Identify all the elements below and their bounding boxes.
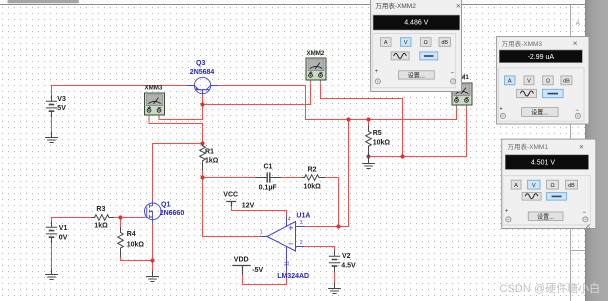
node F junction [336, 224, 340, 228]
watermark CSDN [500, 281, 601, 295]
svg-text:+: + [375, 69, 379, 75]
svg-text:2N6660: 2N6660 [160, 210, 185, 217]
svg-text:VCC: VCC [223, 192, 238, 199]
svg-text:0.1µF: 0.1µF [259, 184, 278, 191]
svg-text:Ω: Ω [551, 183, 555, 189]
node E junction [200, 175, 204, 179]
wire node B to XMM2 left pin [203, 85, 311, 105]
sheet frame zone line [570, 5, 572, 301]
svg-text:LM324AD: LM324AD [277, 273, 309, 280]
svg-text:×: × [579, 141, 584, 151]
wire R5 top lead [368, 120, 370, 126]
svg-text:XMM3: XMM3 [145, 84, 163, 91]
svg-text:1kΩ: 1kΩ [94, 223, 108, 230]
wire op-amp pin2 to V2 [304, 247, 335, 251]
transistor Q3 [187, 77, 219, 94]
multimeter icon XMM1 [452, 83, 472, 109]
resistor R1 [200, 145, 206, 171]
R5 bottom junction [366, 154, 370, 158]
svg-text:2: 2 [300, 240, 303, 246]
svg-text:+: + [499, 106, 503, 112]
svg-text:V: V [404, 40, 408, 46]
svg-text:万用表-XMM3: 万用表-XMM3 [502, 39, 543, 48]
svg-text:Ω: Ω [424, 40, 428, 46]
zone divider tick [571, 250, 586, 252]
wire C1 to R2 [281, 177, 302, 179]
right gray outside area [586, 0, 608, 301]
wire op-amp pin3 to collector node [305, 120, 349, 227]
svg-text:×: × [456, 0, 461, 10]
wire R4 bottom to source node [121, 257, 153, 261]
wire node B to XMM3 right pin [159, 105, 203, 120]
wire R2 to node F [325, 178, 338, 227]
resistor R2 [302, 175, 326, 181]
top scrollbar strip [0, 0, 586, 5]
svg-text:0V: 0V [59, 235, 68, 242]
wire V3 to Q3 emitter [52, 86, 187, 96]
wire op-amp pin11 to VDD [243, 272, 287, 285]
svg-text:−: − [583, 210, 587, 216]
svg-text:V1: V1 [59, 225, 68, 232]
svg-text:10kΩ: 10kΩ [304, 183, 322, 190]
Q3 emitter arrow [195, 87, 198, 90]
source node junction [150, 258, 154, 262]
gate node junction [118, 215, 122, 219]
resistor R4 [118, 227, 124, 257]
collector node junction [346, 117, 350, 121]
R5 top junction [366, 117, 370, 121]
ground under Q1 source [146, 271, 159, 282]
wire XMM2 right pin to ground net [321, 85, 403, 157]
VCC supply symbol [226, 202, 236, 207]
multimeter panel XMM1 [502, 139, 596, 229]
resistor R3 [92, 215, 114, 221]
ground under V3 [45, 132, 58, 143]
battery V3 [46, 95, 57, 117]
svg-text:−: − [575, 108, 579, 114]
multimeter panel XMM2 [371, 0, 462, 92]
svg-text:-2.99 uA: -2.99 uA [528, 54, 555, 61]
svg-text:R4: R4 [127, 231, 136, 238]
svg-text:dB: dB [568, 183, 575, 189]
svg-text:+: + [505, 209, 509, 215]
svg-text:12V: 12V [242, 202, 255, 209]
wire V2 ground lead [334, 272, 336, 283]
svg-text:3: 3 [300, 220, 303, 226]
ground under V1 [45, 269, 58, 280]
node D junction [200, 141, 204, 145]
svg-text:Ω: Ω [546, 79, 550, 85]
wire gate net V1 R3 [52, 218, 92, 222]
svg-text:5V: 5V [57, 105, 66, 112]
svg-text:A: A [576, 20, 581, 27]
battery V1 [46, 221, 57, 243]
resistor R5 [366, 126, 372, 157]
svg-text:1: 1 [260, 230, 263, 236]
VDD supply symbol [232, 266, 250, 275]
svg-text:R2: R2 [308, 167, 317, 174]
svg-text:VDD: VDD [234, 256, 249, 263]
svg-text:U1A: U1A [296, 213, 310, 220]
transistor Q1 [144, 200, 161, 224]
ground under R5 [362, 157, 375, 169]
svg-text:4.5V: 4.5V [341, 263, 356, 270]
svg-text:设置...: 设置... [537, 213, 554, 221]
svg-text:4.486 V: 4.486 V [404, 20, 428, 27]
svg-text:4: 4 [288, 216, 291, 222]
svg-text:11: 11 [285, 261, 291, 266]
wire VCC to op-amp pin4 [232, 206, 287, 216]
wire R3 to Q1 gate [114, 217, 145, 219]
Q1 body arrow [150, 210, 153, 212]
wire node D to Q1 drain [153, 144, 203, 200]
wire R4 top lead [120, 218, 122, 228]
svg-text:设置...: 设置... [531, 109, 548, 117]
wire feedback output to node E [203, 178, 261, 237]
svg-text:-5V: -5V [252, 267, 263, 274]
multimeter icon XMM3 [145, 93, 165, 119]
svg-text:R5: R5 [373, 130, 382, 137]
svg-text:V: V [527, 79, 531, 85]
svg-text:×: × [573, 38, 578, 48]
svg-text:设置...: 设置... [408, 71, 425, 79]
svg-text:dB: dB [441, 40, 448, 46]
node B junction [200, 102, 204, 106]
wire node E to C1 [203, 177, 256, 179]
svg-text:A: A [514, 183, 518, 189]
ground under V2 [328, 283, 341, 294]
wire Q3 collector to XMM1 left pin [218, 86, 456, 120]
svg-text:2N5684: 2N5684 [190, 69, 215, 76]
wire V1 ground lead [51, 243, 53, 269]
battery V2 [329, 250, 340, 272]
wire R1 bottom lead [202, 171, 204, 178]
multimeter icon XMM2 [306, 58, 326, 84]
wire XMM3 left pin to node D [149, 118, 203, 144]
svg-text:CSDN @硬件糖小白: CSDN @硬件糖小白 [500, 281, 601, 295]
svg-text:R3: R3 [96, 206, 105, 213]
svg-text:万用表-XMM2: 万用表-XMM2 [375, 1, 416, 10]
svg-text:C1: C1 [264, 163, 273, 170]
wire Q3 base to node B [202, 95, 204, 105]
svg-text:10kΩ: 10kΩ [127, 242, 145, 249]
wire R1 top lead [202, 144, 204, 145]
svg-text:4.501 V: 4.501 V [531, 159, 555, 166]
wire Q1 source to ground [152, 224, 154, 271]
wire ground net R5 to XMM1 right pin [369, 109, 467, 157]
svg-text:10kΩ: 10kΩ [373, 140, 391, 147]
svg-text:V3: V3 [57, 96, 66, 103]
svg-text:1kΩ: 1kΩ [205, 157, 219, 164]
svg-text:Q1: Q1 [161, 201, 170, 208]
svg-text:V2: V2 [342, 253, 351, 260]
ground net junction [400, 154, 404, 158]
svg-text:A: A [384, 40, 388, 46]
svg-text:XMM2: XMM2 [307, 50, 325, 57]
svg-text:V: V [532, 183, 536, 189]
svg-text:R1: R1 [205, 148, 214, 155]
svg-text:Q3: Q3 [196, 60, 205, 67]
svg-text:dB: dB [563, 79, 570, 85]
capacitor C1 [256, 172, 282, 182]
multimeter panel XMM3 [497, 37, 589, 124]
svg-text:A: A [508, 79, 512, 85]
op-amp U1A [261, 216, 305, 272]
wire V3 ground lead [51, 117, 53, 132]
svg-text:−: − [451, 71, 455, 77]
svg-text:万用表-XMM1: 万用表-XMM1 [508, 142, 549, 151]
